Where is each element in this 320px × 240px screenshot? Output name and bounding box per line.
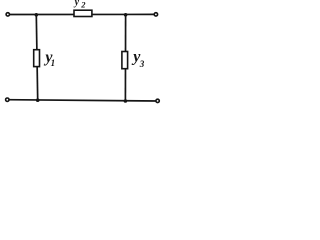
junction bottom-right node xyxy=(124,99,128,103)
junction top-left node xyxy=(35,13,39,17)
admittance y3 box xyxy=(122,52,128,69)
wire top horizontal xyxy=(8,13,156,15)
wire left vertical branch xyxy=(36,15,37,101)
wire bottom horizontal xyxy=(7,100,157,101)
junction bottom-left node xyxy=(36,98,40,102)
svg-text:1: 1 xyxy=(51,58,56,68)
admittance y1 box xyxy=(34,50,40,67)
label y1 xyxy=(43,49,55,68)
terminal bottom-left xyxy=(6,98,9,101)
svg-text:y: y xyxy=(74,0,80,8)
svg-text:3: 3 xyxy=(139,59,145,69)
svg-text:2: 2 xyxy=(80,0,86,10)
label y2 xyxy=(74,0,87,10)
terminal top-right xyxy=(154,13,157,16)
terminal bottom-right xyxy=(156,99,159,102)
terminal top-left xyxy=(6,13,9,16)
wire right vertical branch xyxy=(124,15,126,101)
label y3 xyxy=(131,49,145,69)
junction top-right node xyxy=(124,13,128,17)
admittance y2 box xyxy=(74,10,92,16)
